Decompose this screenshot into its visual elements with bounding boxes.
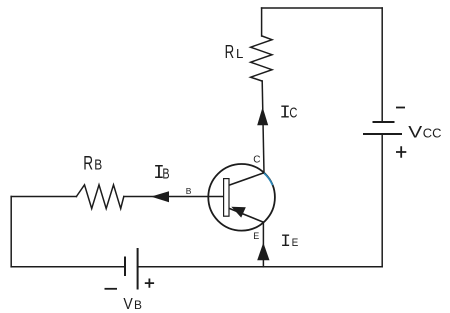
svg-text:C: C (289, 104, 297, 121)
wire collector vertical lower (262, 81, 264, 173)
label IE (280, 232, 298, 252)
transistor emitter arrow (PNP) (231, 207, 246, 218)
svg-text:I: I (280, 232, 291, 252)
label IC (280, 102, 298, 123)
current arrow IE (257, 243, 269, 261)
wire collector vertical upper (261, 8, 263, 36)
wire base right (124, 196, 223, 198)
transistor collector line (229, 173, 264, 185)
svg-text:E: E (253, 231, 259, 241)
current arrow IC (257, 107, 268, 125)
wire right lower (381, 134, 383, 267)
wire emitter vertical (262, 222, 264, 267)
svg-text:L: L (236, 46, 243, 61)
svg-text:E: E (292, 237, 299, 250)
wire top (262, 7, 383, 9)
label plus VB (145, 279, 154, 288)
svg-text:CC: CC (423, 125, 442, 140)
wire right upper (381, 8, 383, 122)
wire bottom left (11, 266, 125, 268)
transistor base bar (224, 179, 229, 217)
label RL (225, 42, 244, 63)
transistor Q1 (208, 164, 275, 231)
label RB (83, 152, 102, 174)
label plus VCC (396, 146, 406, 158)
wire bottom right (138, 266, 383, 268)
battery VB plate short (negative) (124, 258, 126, 276)
resistor RL (251, 36, 272, 81)
label minus VCC (396, 107, 405, 109)
svg-text:V: V (408, 123, 422, 142)
wire base left (11, 196, 76, 198)
current arrow IB (151, 191, 169, 202)
label IB (153, 162, 170, 184)
label VB (123, 296, 142, 313)
svg-text:R: R (225, 42, 235, 63)
svg-text:B: B (186, 186, 192, 196)
svg-text:R: R (83, 152, 93, 174)
battery VCC plate short (negative) (374, 121, 394, 123)
label minus VB (105, 288, 118, 290)
battery VCC plate long (positive) (364, 133, 401, 135)
svg-text:B: B (134, 298, 142, 312)
battery VB plate long (positive) (137, 249, 139, 289)
svg-text:B: B (162, 165, 169, 182)
svg-text:V: V (123, 296, 133, 313)
wire left vertical (10, 197, 12, 267)
resistor RB (76, 185, 123, 209)
svg-text:B: B (94, 157, 102, 173)
transistor body circle blue arc artifact (264, 173, 273, 185)
label VCC (408, 123, 441, 142)
transistor emitter line (229, 208, 264, 222)
transistor body circle (208, 164, 275, 231)
svg-text:C: C (253, 155, 260, 166)
